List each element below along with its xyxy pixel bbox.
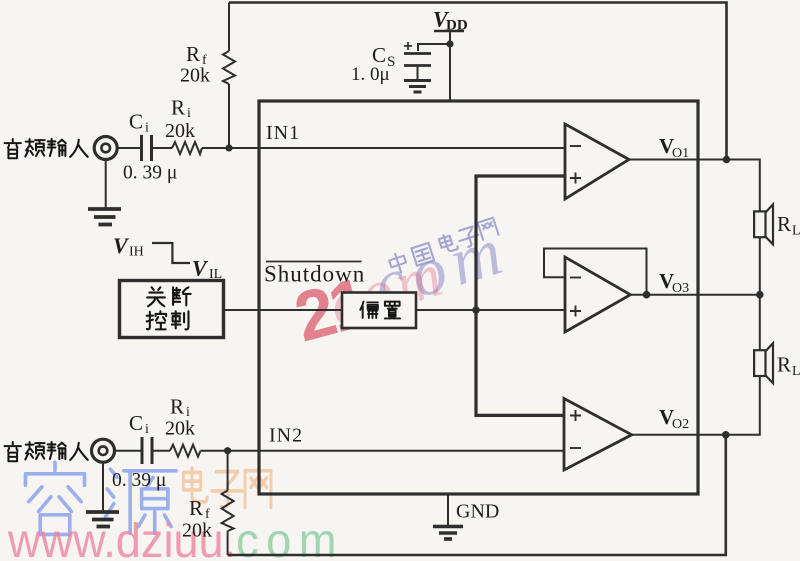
svg-text:i: i xyxy=(145,121,149,136)
svg-text:0. 39 μ: 0. 39 μ xyxy=(123,163,177,184)
svg-text:1. 0μ: 1. 0μ xyxy=(351,64,390,85)
svg-text:L: L xyxy=(792,224,800,239)
svg-text:C: C xyxy=(129,110,143,134)
svg-text:O2: O2 xyxy=(672,417,689,432)
svg-text:DD: DD xyxy=(446,18,468,34)
svg-text:R: R xyxy=(170,395,184,419)
svg-text:IL: IL xyxy=(209,267,222,282)
svg-text:20k: 20k xyxy=(180,65,210,87)
svg-text:O1: O1 xyxy=(672,146,689,161)
svg-text:i: i xyxy=(187,106,191,121)
svg-text:R: R xyxy=(186,42,200,66)
svg-text:IN1: IN1 xyxy=(266,122,300,144)
svg-text:20k: 20k xyxy=(182,520,212,542)
svg-text:R: R xyxy=(777,212,791,236)
svg-text:20k: 20k xyxy=(165,120,195,142)
svg-text:V: V xyxy=(113,233,130,258)
svg-text:R: R xyxy=(171,96,185,120)
svg-text:R: R xyxy=(777,353,791,377)
svg-text:i: i xyxy=(145,422,149,437)
svg-text:IH: IH xyxy=(129,245,144,260)
svg-text:IN2: IN2 xyxy=(269,425,303,447)
svg-text:L: L xyxy=(792,364,800,379)
svg-text:GND: GND xyxy=(456,501,499,523)
svg-text:0. 39 μ: 0. 39 μ xyxy=(112,470,166,491)
svg-text:V: V xyxy=(192,256,209,281)
svg-text:O3: O3 xyxy=(672,281,689,296)
svg-text:C: C xyxy=(129,411,143,435)
svg-text:R: R xyxy=(189,496,203,520)
svg-text:Shutdown: Shutdown xyxy=(264,262,365,287)
svg-text:20k: 20k xyxy=(165,418,195,440)
